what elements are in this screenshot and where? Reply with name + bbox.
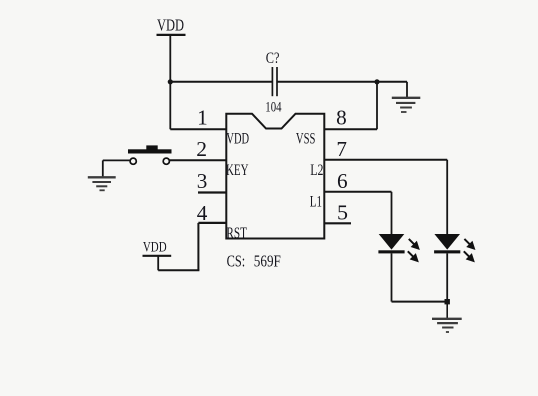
- svg-text:3: 3: [197, 169, 208, 193]
- svg-text:7: 7: [336, 137, 347, 161]
- svg-text:C?: C?: [266, 50, 280, 67]
- svg-text:VDD: VDD: [143, 240, 167, 256]
- svg-text:VSS: VSS: [296, 130, 316, 147]
- svg-text:VDD: VDD: [226, 130, 249, 147]
- svg-text:6: 6: [337, 169, 348, 193]
- svg-text:8: 8: [336, 106, 347, 130]
- svg-text:L1: L1: [310, 193, 322, 210]
- svg-text:104: 104: [265, 99, 282, 115]
- svg-text:569F: 569F: [254, 252, 281, 271]
- svg-text:1: 1: [197, 106, 208, 130]
- svg-text:KEY: KEY: [226, 162, 249, 179]
- svg-text:5: 5: [337, 200, 348, 224]
- svg-text:VDD: VDD: [157, 15, 184, 34]
- svg-text:RST: RST: [226, 225, 247, 242]
- svg-text:CS:: CS:: [227, 252, 246, 271]
- svg-text:2: 2: [196, 137, 207, 161]
- svg-text:4: 4: [197, 201, 208, 225]
- svg-text:L2: L2: [310, 162, 323, 179]
